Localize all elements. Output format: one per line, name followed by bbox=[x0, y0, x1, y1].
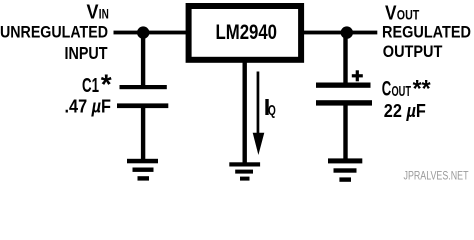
label VIN bbox=[87, 2, 109, 24]
svg-text:OUTPUT: OUTPUT bbox=[383, 42, 443, 61]
ground (left) bbox=[127, 159, 158, 181]
node input junction bbox=[137, 26, 149, 38]
svg-text:V: V bbox=[385, 3, 397, 25]
svg-text:22 µF: 22 µF bbox=[384, 101, 426, 121]
wire junction down to C1 bbox=[141, 32, 145, 86]
regulator U1 LM2940 bbox=[189, 6, 302, 60]
label + polarity bbox=[352, 70, 363, 81]
capacitor C1 bbox=[117, 85, 168, 108]
current arrow IQ bbox=[253, 72, 265, 156]
svg-text:C: C bbox=[382, 77, 392, 100]
wire regulator ground pin bbox=[243, 59, 247, 164]
label C1* bbox=[82, 69, 112, 100]
ground (center) bbox=[229, 162, 260, 180]
svg-text:V: V bbox=[87, 2, 100, 24]
wire COUT to ground bbox=[343, 105, 347, 160]
label COUT** bbox=[382, 76, 431, 103]
svg-text:.47 µF: .47 µF bbox=[65, 97, 112, 117]
wire C1 to ground bbox=[141, 108, 145, 161]
label UNREGULATED INPUT bbox=[0, 22, 108, 63]
label VOUT bbox=[385, 3, 420, 25]
svg-text:JPRALVES.NET: JPRALVES.NET bbox=[404, 171, 469, 183]
svg-text:*: * bbox=[101, 69, 112, 100]
svg-text:OUT: OUT bbox=[397, 8, 420, 23]
svg-text:LM2940: LM2940 bbox=[216, 21, 278, 44]
svg-text:INPUT: INPUT bbox=[65, 43, 108, 63]
label REGULATED OUTPUT bbox=[382, 22, 471, 61]
svg-text:OUT: OUT bbox=[392, 84, 412, 100]
svg-text:C1: C1 bbox=[82, 74, 99, 97]
wire output horizontal bbox=[304, 31, 377, 35]
wire junction down to COUT bbox=[343, 32, 347, 83]
ground (right) bbox=[328, 158, 362, 181]
label IQ bbox=[264, 94, 276, 120]
svg-text:Q: Q bbox=[268, 102, 276, 119]
svg-text:IN: IN bbox=[99, 7, 109, 22]
svg-text:**: ** bbox=[413, 76, 432, 103]
wire input horizontal bbox=[114, 31, 187, 35]
capacitor COUT bbox=[316, 83, 372, 106]
node output junction bbox=[341, 26, 353, 38]
svg-text:REGULATED: REGULATED bbox=[382, 22, 471, 41]
svg-text:UNREGULATED: UNREGULATED bbox=[0, 22, 108, 41]
